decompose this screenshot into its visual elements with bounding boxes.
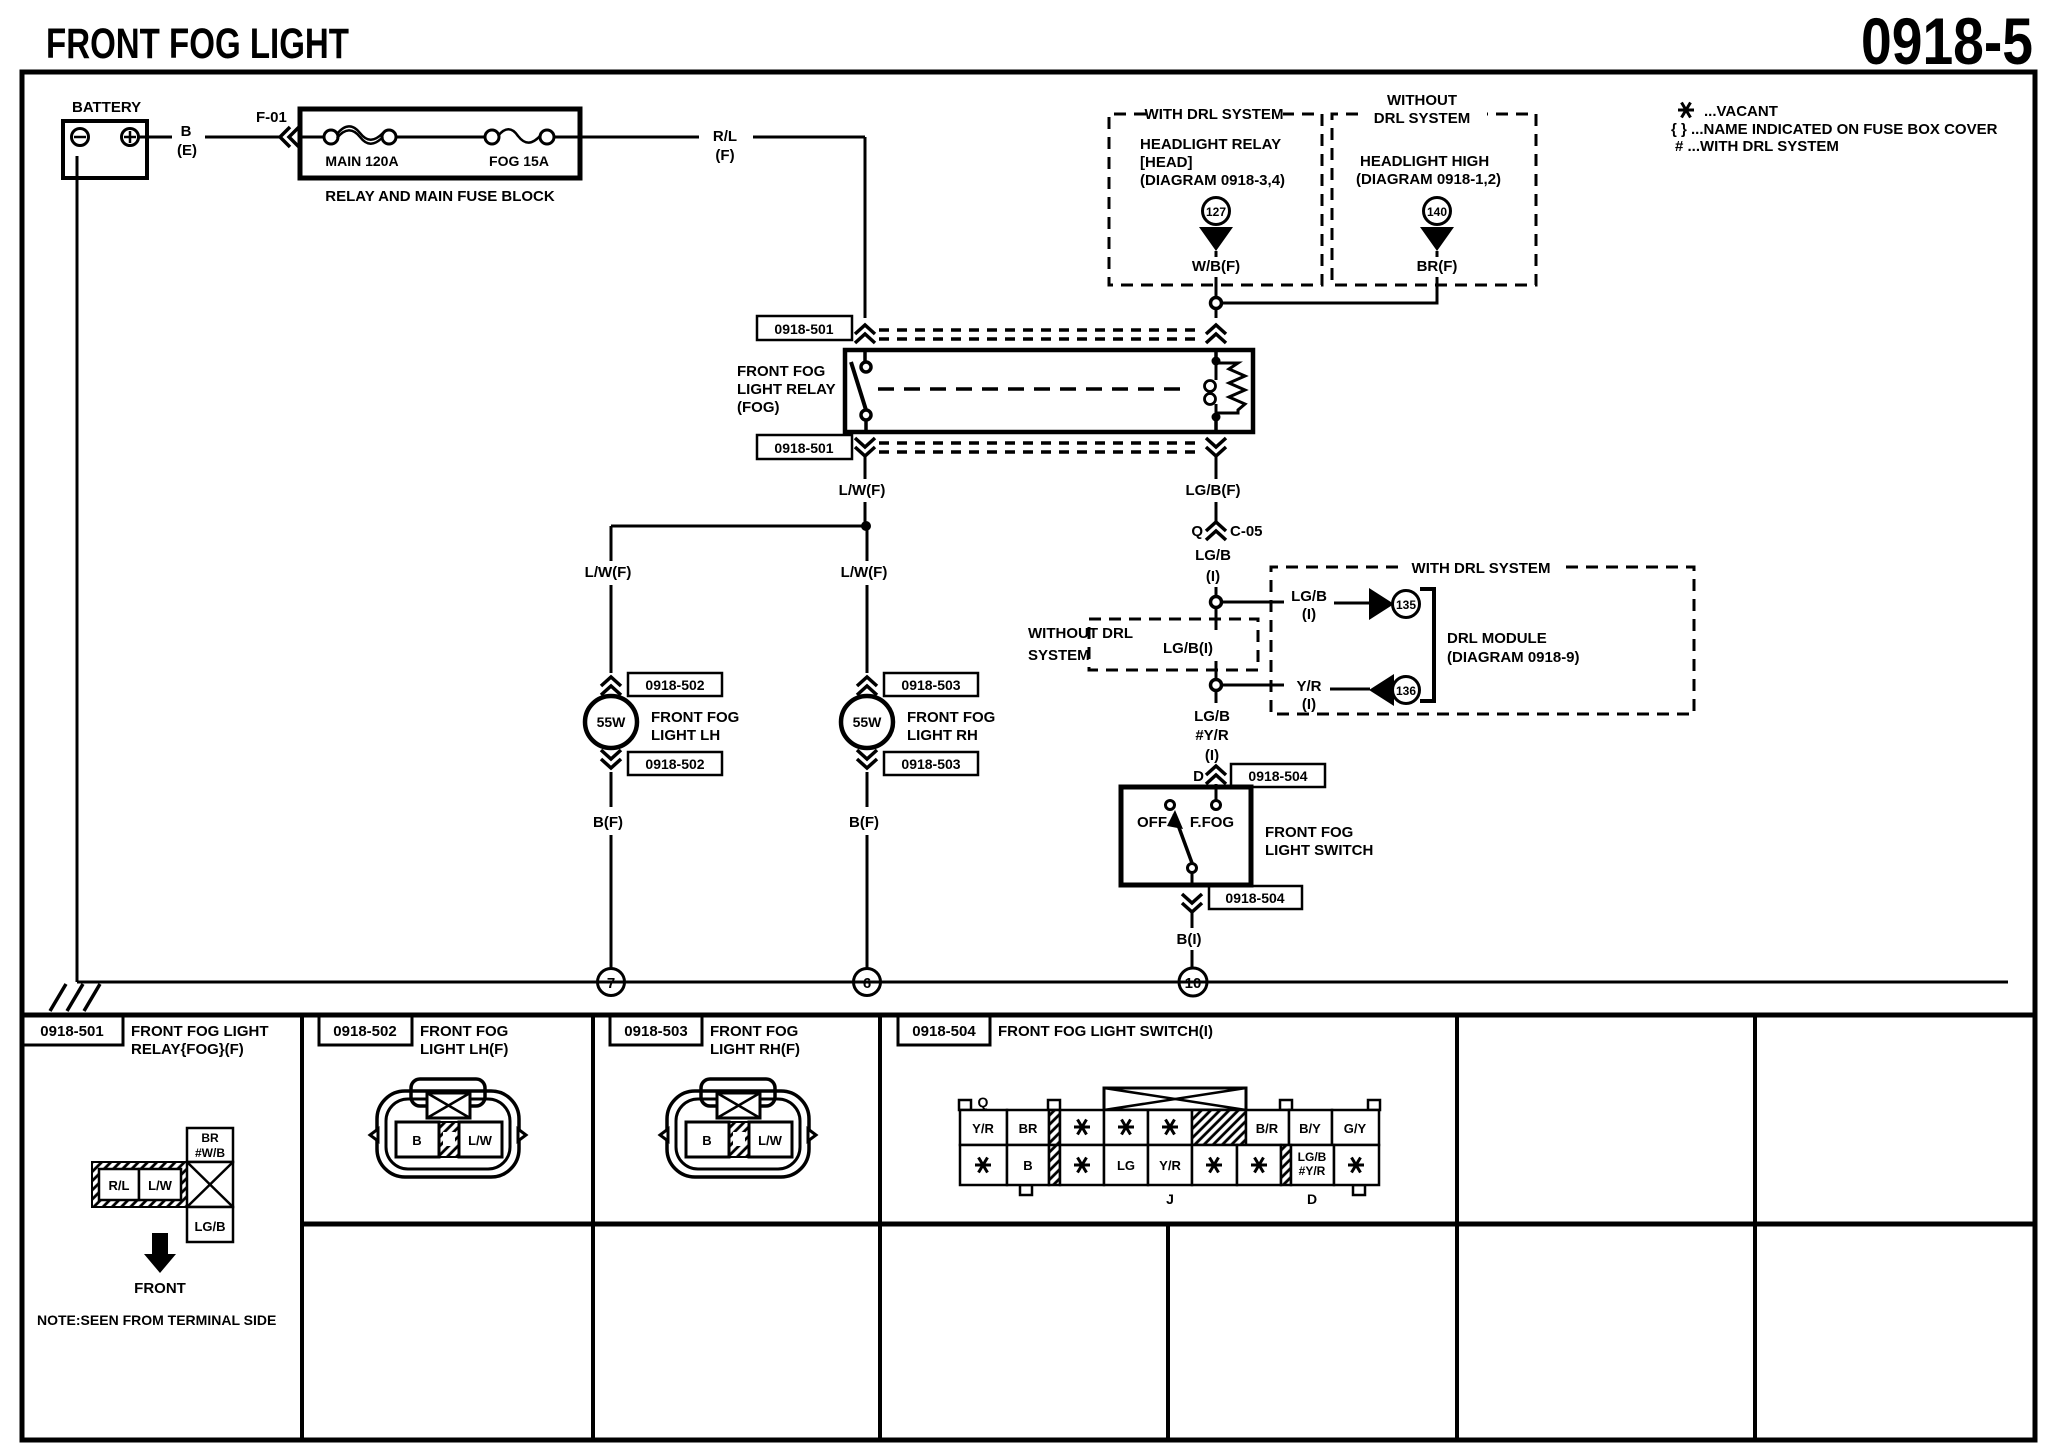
svg-text:(F): (F) (715, 147, 734, 164)
svg-text:7: 7 (607, 975, 615, 992)
svg-text:135: 135 (1396, 598, 1416, 612)
svg-text:0918-502: 0918-502 (645, 756, 704, 772)
svg-text:DRL MODULE: DRL MODULE (1447, 630, 1547, 647)
svg-text:0918-501: 0918-501 (774, 440, 833, 456)
svg-text:136: 136 (1396, 684, 1416, 698)
svg-text:RELAY AND MAIN FUSE BLOCK: RELAY AND MAIN FUSE BLOCK (325, 188, 555, 205)
svg-text:Q: Q (978, 1094, 989, 1110)
svg-text:0918-503: 0918-503 (901, 677, 960, 693)
svg-text:WITH DRL SYSTEM: WITH DRL SYSTEM (1412, 560, 1551, 577)
svg-text:FRONT FOG LIGHT: FRONT FOG LIGHT (46, 20, 349, 68)
svg-text:FRONT: FRONT (134, 1280, 186, 1297)
svg-text:BR: BR (201, 1131, 219, 1145)
svg-text:FOG 15A: FOG 15A (489, 153, 549, 169)
svg-text:LIGHT RH: LIGHT RH (907, 727, 978, 744)
svg-text:F.FOG: F.FOG (1190, 814, 1234, 831)
svg-text:SYSTEM: SYSTEM (1028, 647, 1090, 664)
svg-text:B/R: B/R (1256, 1121, 1279, 1136)
svg-text:WITHOUT DRL: WITHOUT DRL (1028, 625, 1133, 642)
svg-text:0918-503: 0918-503 (624, 1023, 687, 1040)
svg-text:WITH DRL SYSTEM: WITH DRL SYSTEM (1145, 106, 1284, 123)
svg-text:# ...WITH DRL SYSTEM: # ...WITH DRL SYSTEM (1675, 138, 1839, 155)
svg-text:L/W(F): L/W(F) (841, 564, 888, 581)
svg-text:FRONT FOG: FRONT FOG (737, 363, 825, 380)
svg-text:B/Y: B/Y (1299, 1121, 1321, 1136)
svg-text:D: D (1193, 768, 1204, 785)
svg-text:OFF: OFF (1137, 814, 1167, 831)
svg-text:10: 10 (1185, 975, 1202, 992)
svg-text:{ } ...NAME INDICATED ON FUSE: { } ...NAME INDICATED ON FUSE BOX COVER (1671, 121, 1998, 138)
svg-text:L/W(F): L/W(F) (585, 564, 632, 581)
svg-text:R/L: R/L (109, 1178, 130, 1193)
svg-text:(I): (I) (1302, 606, 1316, 623)
svg-text:6: 6 (863, 975, 871, 992)
svg-text:D: D (1307, 1191, 1317, 1207)
svg-text:0918-504: 0918-504 (1248, 768, 1307, 784)
svg-text:B: B (1023, 1158, 1032, 1173)
svg-text:FRONT FOG: FRONT FOG (420, 1023, 508, 1040)
svg-text:FRONT FOG LIGHT: FRONT FOG LIGHT (131, 1023, 268, 1040)
svg-text:LG/B: LG/B (194, 1219, 225, 1234)
svg-text:#Y/R: #Y/R (1195, 727, 1229, 744)
svg-text:R/L: R/L (713, 128, 737, 145)
svg-text:[HEAD]: [HEAD] (1140, 154, 1193, 171)
svg-text:G/Y: G/Y (1344, 1121, 1367, 1136)
svg-text:B: B (412, 1133, 421, 1148)
svg-text:LG/B(I): LG/B(I) (1163, 640, 1213, 657)
svg-text:Y/R: Y/R (1296, 678, 1321, 695)
svg-text:LG/B: LG/B (1194, 708, 1230, 725)
svg-text:Y/R: Y/R (972, 1121, 994, 1136)
svg-text:LG/B(F): LG/B(F) (1186, 482, 1241, 499)
svg-text:(FOG): (FOG) (737, 399, 780, 416)
svg-text:C-05: C-05 (1230, 523, 1263, 540)
svg-text:B(F): B(F) (849, 814, 879, 831)
svg-text:LIGHT LH: LIGHT LH (651, 727, 720, 744)
svg-text:LIGHT SWITCH: LIGHT SWITCH (1265, 842, 1373, 859)
svg-text:0918-501: 0918-501 (774, 321, 833, 337)
svg-text:BR(F): BR(F) (1417, 258, 1458, 275)
svg-text:LIGHT RH(F): LIGHT RH(F) (710, 1041, 800, 1058)
svg-text:0918-502: 0918-502 (333, 1023, 396, 1040)
svg-text:Q: Q (1191, 523, 1203, 540)
svg-text:L/W: L/W (148, 1178, 173, 1193)
svg-text:0918-504: 0918-504 (1225, 890, 1284, 906)
svg-text:(E): (E) (177, 142, 197, 159)
svg-text:#W/B: #W/B (195, 1146, 225, 1160)
svg-text:Y/R: Y/R (1159, 1158, 1181, 1173)
svg-text:(I): (I) (1206, 568, 1220, 585)
svg-text:FRONT FOG: FRONT FOG (907, 709, 995, 726)
svg-text:FRONT FOG: FRONT FOG (651, 709, 739, 726)
svg-text:0918-502: 0918-502 (645, 677, 704, 693)
svg-text:(DIAGRAM 0918-3,4): (DIAGRAM 0918-3,4) (1140, 172, 1285, 189)
svg-text:(DIAGRAM 0918-9): (DIAGRAM 0918-9) (1447, 649, 1580, 666)
svg-text:FRONT FOG LIGHT SWITCH(I): FRONT FOG LIGHT SWITCH(I) (998, 1023, 1213, 1040)
svg-text:LIGHT RELAY: LIGHT RELAY (737, 381, 836, 398)
svg-text:HEADLIGHT HIGH: HEADLIGHT HIGH (1360, 153, 1489, 170)
svg-text:W/B(F): W/B(F) (1192, 258, 1240, 275)
svg-text:B(I): B(I) (1177, 931, 1202, 948)
svg-text:...VACANT: ...VACANT (1704, 103, 1778, 120)
svg-text:55W: 55W (597, 714, 627, 730)
svg-text:140: 140 (1427, 205, 1447, 219)
svg-text:B(F): B(F) (593, 814, 623, 831)
svg-text:0918-504: 0918-504 (912, 1023, 976, 1040)
svg-text:MAIN 120A: MAIN 120A (325, 153, 398, 169)
svg-text:LG/B: LG/B (1195, 547, 1231, 564)
svg-text:LG/B: LG/B (1298, 1150, 1327, 1164)
svg-text:#Y/R: #Y/R (1299, 1164, 1326, 1178)
svg-text:LG/B: LG/B (1291, 588, 1327, 605)
svg-text:RELAY{FOG}(F): RELAY{FOG}(F) (131, 1041, 244, 1058)
svg-text:FRONT FOG: FRONT FOG (1265, 824, 1353, 841)
svg-text:J: J (1166, 1191, 1174, 1207)
svg-text:L/W(F): L/W(F) (839, 482, 886, 499)
svg-text:WITHOUT: WITHOUT (1387, 92, 1457, 109)
svg-text:BATTERY: BATTERY (72, 99, 141, 116)
svg-text:(DIAGRAM 0918-1,2): (DIAGRAM 0918-1,2) (1356, 171, 1501, 188)
svg-text:F-01: F-01 (256, 109, 287, 126)
svg-text:0918-501: 0918-501 (40, 1023, 103, 1040)
svg-text:FRONT FOG: FRONT FOG (710, 1023, 798, 1040)
svg-text:NOTE:SEEN FROM TERMINAL SIDE: NOTE:SEEN FROM TERMINAL SIDE (37, 1312, 276, 1328)
svg-text:55W: 55W (853, 714, 883, 730)
svg-text:BR: BR (1019, 1121, 1038, 1136)
svg-text:(I): (I) (1302, 696, 1316, 713)
svg-text:B: B (181, 123, 192, 140)
svg-text:L/W: L/W (468, 1133, 493, 1148)
svg-text:HEADLIGHT RELAY: HEADLIGHT RELAY (1140, 136, 1281, 153)
svg-text:LG: LG (1117, 1158, 1135, 1173)
svg-text:(I): (I) (1205, 747, 1219, 764)
svg-text:0918-503: 0918-503 (901, 756, 960, 772)
svg-text:DRL SYSTEM: DRL SYSTEM (1374, 110, 1470, 127)
svg-text:127: 127 (1206, 205, 1226, 219)
svg-text:LIGHT LH(F): LIGHT LH(F) (420, 1041, 508, 1058)
svg-text:0918-5: 0918-5 (1861, 4, 2033, 78)
